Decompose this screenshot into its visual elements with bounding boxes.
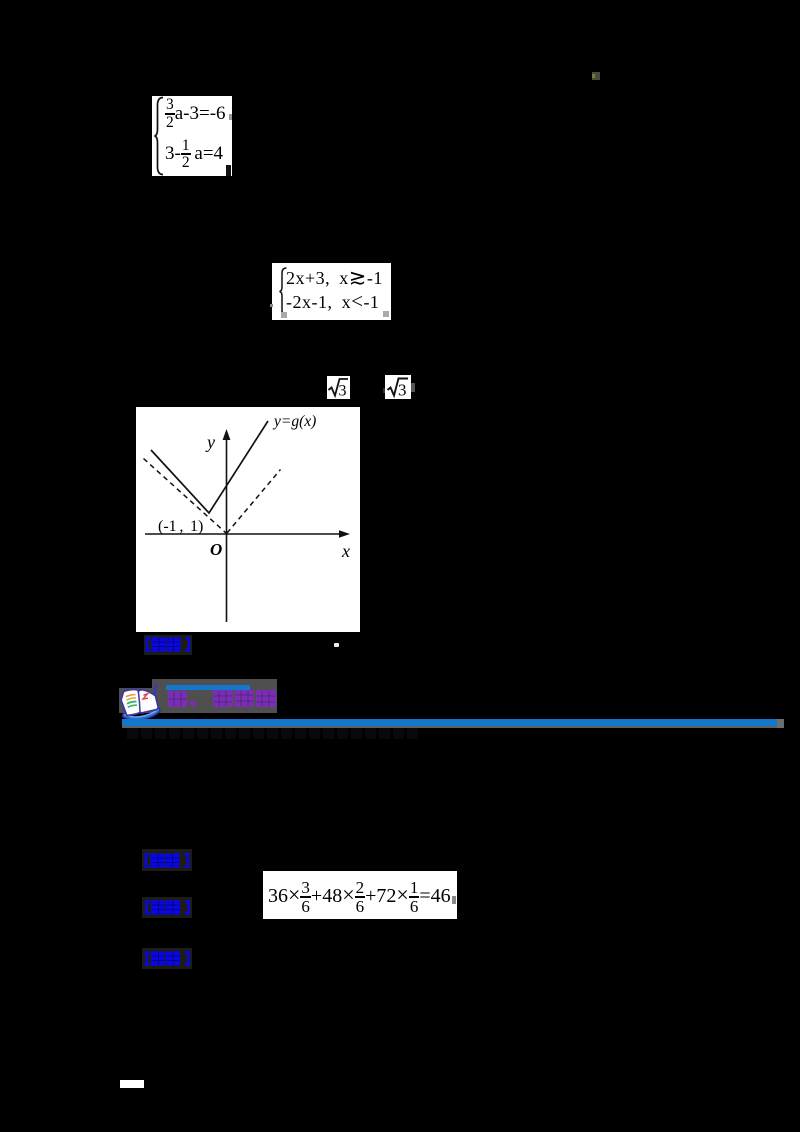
pencil	[151, 684, 158, 699]
page marks left (orange + green)	[126, 695, 136, 697]
graph image	[136, 407, 360, 632]
svg-text:y=g(x): y=g(x)	[272, 413, 316, 430]
x axis	[145, 533, 345, 535]
equation image 3: 36x3/6+48x2/6+72x1/6=46	[263, 871, 457, 919]
equation image 2: piecewise {2x+3 x>=-1 ; -2x-1 x<-1}	[272, 263, 391, 320]
sqrt(3) image 1	[327, 376, 350, 399]
svg-text:x: x	[341, 541, 350, 561]
svg-text:y: y	[205, 432, 215, 452]
svg-text:3: 3	[339, 383, 347, 400]
big blue rule	[122, 726, 784, 728]
book base shadow	[123, 708, 161, 720]
book icon	[118, 681, 164, 723]
open book	[121, 689, 158, 715]
answer label 1	[144, 635, 192, 655]
purple title (stylized CJK blocks)	[167, 689, 277, 709]
red mark right page	[143, 694, 148, 699]
svg-text:O: O	[210, 540, 222, 559]
bottom small white box	[120, 1080, 144, 1088]
cursor artifact bottom-right	[226, 165, 231, 176]
section header: gray band + icon + purple title + blue bar	[119, 679, 277, 713]
blue accent bar	[166, 685, 250, 690]
answer label 4	[142, 948, 192, 969]
faint dark caption under rule	[127, 728, 419, 739]
equation image 1: system {3/2 a-3=-6 ; 3-1/2 a=4}	[152, 96, 232, 176]
tiny gray marker top right	[592, 72, 600, 80]
svg-text:3: 3	[398, 381, 407, 400]
answer label 2	[142, 849, 192, 871]
solid V	[151, 421, 268, 513]
svg-text:(-1 , 1): (-1 , 1)	[158, 518, 203, 535]
answer label 3	[142, 897, 192, 918]
y axis	[226, 434, 228, 622]
sqrt(3) image 2	[385, 375, 411, 399]
tiny white blob	[334, 643, 339, 647]
dashed V	[144, 459, 227, 534]
